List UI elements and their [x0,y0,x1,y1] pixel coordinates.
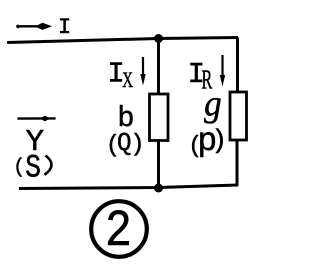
svg-text:2: 2 [105,201,132,261]
svg-text:S: S [25,150,41,186]
svg-text:g: g [204,83,222,124]
svg-text:(: ( [13,156,25,179]
svg-text:): ) [130,132,144,159]
svg-text:): ) [212,126,228,156]
svg-text:X: X [122,68,133,93]
svg-text:I: I [58,15,71,40]
